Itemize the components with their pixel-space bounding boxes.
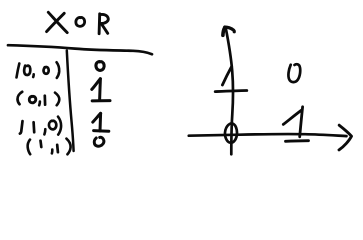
row 4 output 0 <box>94 137 104 146</box>
row 1 output 0 <box>96 62 104 71</box>
row 2 input (0,1) <box>17 92 59 106</box>
x-axis tick label 1 flag <box>283 110 302 125</box>
title XOR letter O <box>76 17 85 26</box>
row 2 output 1 <box>92 79 110 101</box>
y-axis line <box>226 28 233 155</box>
row 3 output 1 <box>93 113 109 131</box>
title XOR letter R <box>99 14 108 34</box>
x-axis arrowhead <box>339 125 352 150</box>
x-axis tick label 1 base bar <box>286 139 309 142</box>
origin 0 <box>225 123 237 143</box>
y-axis tick label 1 flag <box>222 67 231 85</box>
row 1 input (0,0) <box>17 62 60 78</box>
x-axis tick label 1 stem <box>300 107 303 137</box>
row 3 input (1,0) <box>20 117 61 135</box>
row 4 input (1,1) <box>28 139 71 155</box>
y-axis arrowhead <box>223 27 234 35</box>
x-axis line <box>189 134 347 136</box>
point label 0 at (1,1) <box>288 64 300 82</box>
title XOR letter X <box>47 12 68 32</box>
table header rule <box>8 45 152 54</box>
table column separator <box>67 51 74 152</box>
y-axis tick label 1 crossbar <box>215 91 247 92</box>
